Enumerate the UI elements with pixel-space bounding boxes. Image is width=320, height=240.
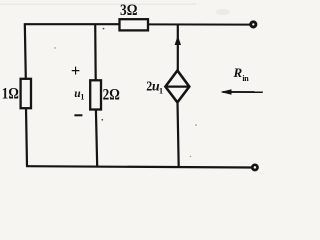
- dependent current source U (diamond): [165, 71, 189, 103]
- svg-text:in: in: [242, 74, 249, 83]
- noise smudge: [216, 9, 230, 15]
- noise speck: [195, 124, 197, 126]
- svg-text:R: R: [233, 65, 243, 80]
- current direction arrow (up): [175, 36, 181, 46]
- wire: left vertical upper: [25, 23, 26, 79]
- wire: top, 3-ohm resistor to right terminal: [148, 23, 251, 25]
- faint scan streak: [0, 4, 196, 5]
- wire: left vertical lower: [26, 108, 27, 166]
- diamond mid bar: [165, 85, 189, 87]
- resistor R 2ohm box: [90, 80, 101, 109]
- noise speck: [103, 28, 105, 30]
- svg-text:1: 1: [159, 85, 163, 95]
- svg-text:2Ω: 2Ω: [103, 86, 120, 103]
- wire: dependent source branch upper: [177, 24, 179, 71]
- wire: middle vertical upper: [94, 24, 97, 81]
- terminal b (bottom right): [252, 165, 257, 170]
- svg-text:1Ω: 1Ω: [2, 86, 19, 103]
- wire: bottom rail: [26, 166, 252, 167]
- wire: top, left corner to 3-ohm resistor: [25, 23, 120, 25]
- input-resistance arrow (left): [223, 91, 263, 93]
- resistor R 3ohm box: [120, 19, 149, 30]
- svg-text:3Ω: 3Ω: [120, 2, 138, 19]
- wire: dependent source branch lower: [178, 102, 179, 167]
- noise speck: [54, 47, 55, 48]
- noise speck: [190, 156, 191, 157]
- noise speck: [101, 119, 103, 121]
- wire: middle vertical lower: [96, 109, 97, 167]
- svg-text:1: 1: [80, 93, 84, 102]
- svg-text:+: +: [71, 61, 80, 80]
- label minus: [74, 114, 82, 116]
- terminal a (top right): [251, 22, 256, 27]
- resistor R 1ohm box: [21, 79, 31, 108]
